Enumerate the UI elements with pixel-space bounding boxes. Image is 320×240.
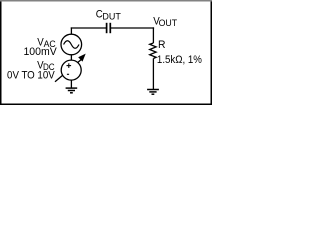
ground (left, under VDC)	[66, 88, 78, 93]
svg-text:0V TO 10V: 0V TO 10V	[7, 69, 55, 82]
variable-source arrow head	[78, 54, 86, 62]
label VAC	[37, 36, 56, 49]
wire VDC to ground	[70, 80, 72, 88]
resistor R zigzag	[150, 43, 156, 59]
capacitor CDUT left plate	[106, 23, 108, 33]
svg-text:R: R	[158, 39, 166, 51]
capacitor CDUT right plate	[109, 23, 111, 33]
wire from VAC top to top rail	[70, 27, 72, 34]
svg-text:1.5kΩ, 1%: 1.5kΩ, 1%	[157, 53, 202, 66]
AC source VAC circle	[61, 34, 82, 55]
plus sign in VDC	[67, 63, 72, 68]
wire between VAC and VDC	[70, 54, 72, 60]
wire resistor to ground	[152, 59, 154, 90]
sine wave inside VAC	[64, 41, 79, 49]
svg-text:DUT: DUT	[102, 12, 121, 22]
wire VOUT node down to resistor	[152, 27, 154, 43]
border frame	[1, 1, 212, 105]
label VDC	[37, 59, 55, 72]
label CDUT	[96, 8, 121, 22]
wire top rail right of CDUT	[111, 27, 154, 29]
label VOUT	[153, 15, 177, 28]
wire top rail left of CDUT	[71, 27, 106, 29]
svg-text:100mV: 100mV	[23, 46, 57, 58]
border top gray edge	[0, 0, 212, 2]
minus sign in VDC	[67, 73, 69, 75]
DC source VDC circle	[61, 60, 81, 80]
svg-text:OUT: OUT	[159, 18, 178, 28]
ground (right, under R)	[147, 90, 159, 95]
variable-source arrow shaft (under VDC circle)	[55, 59, 82, 82]
